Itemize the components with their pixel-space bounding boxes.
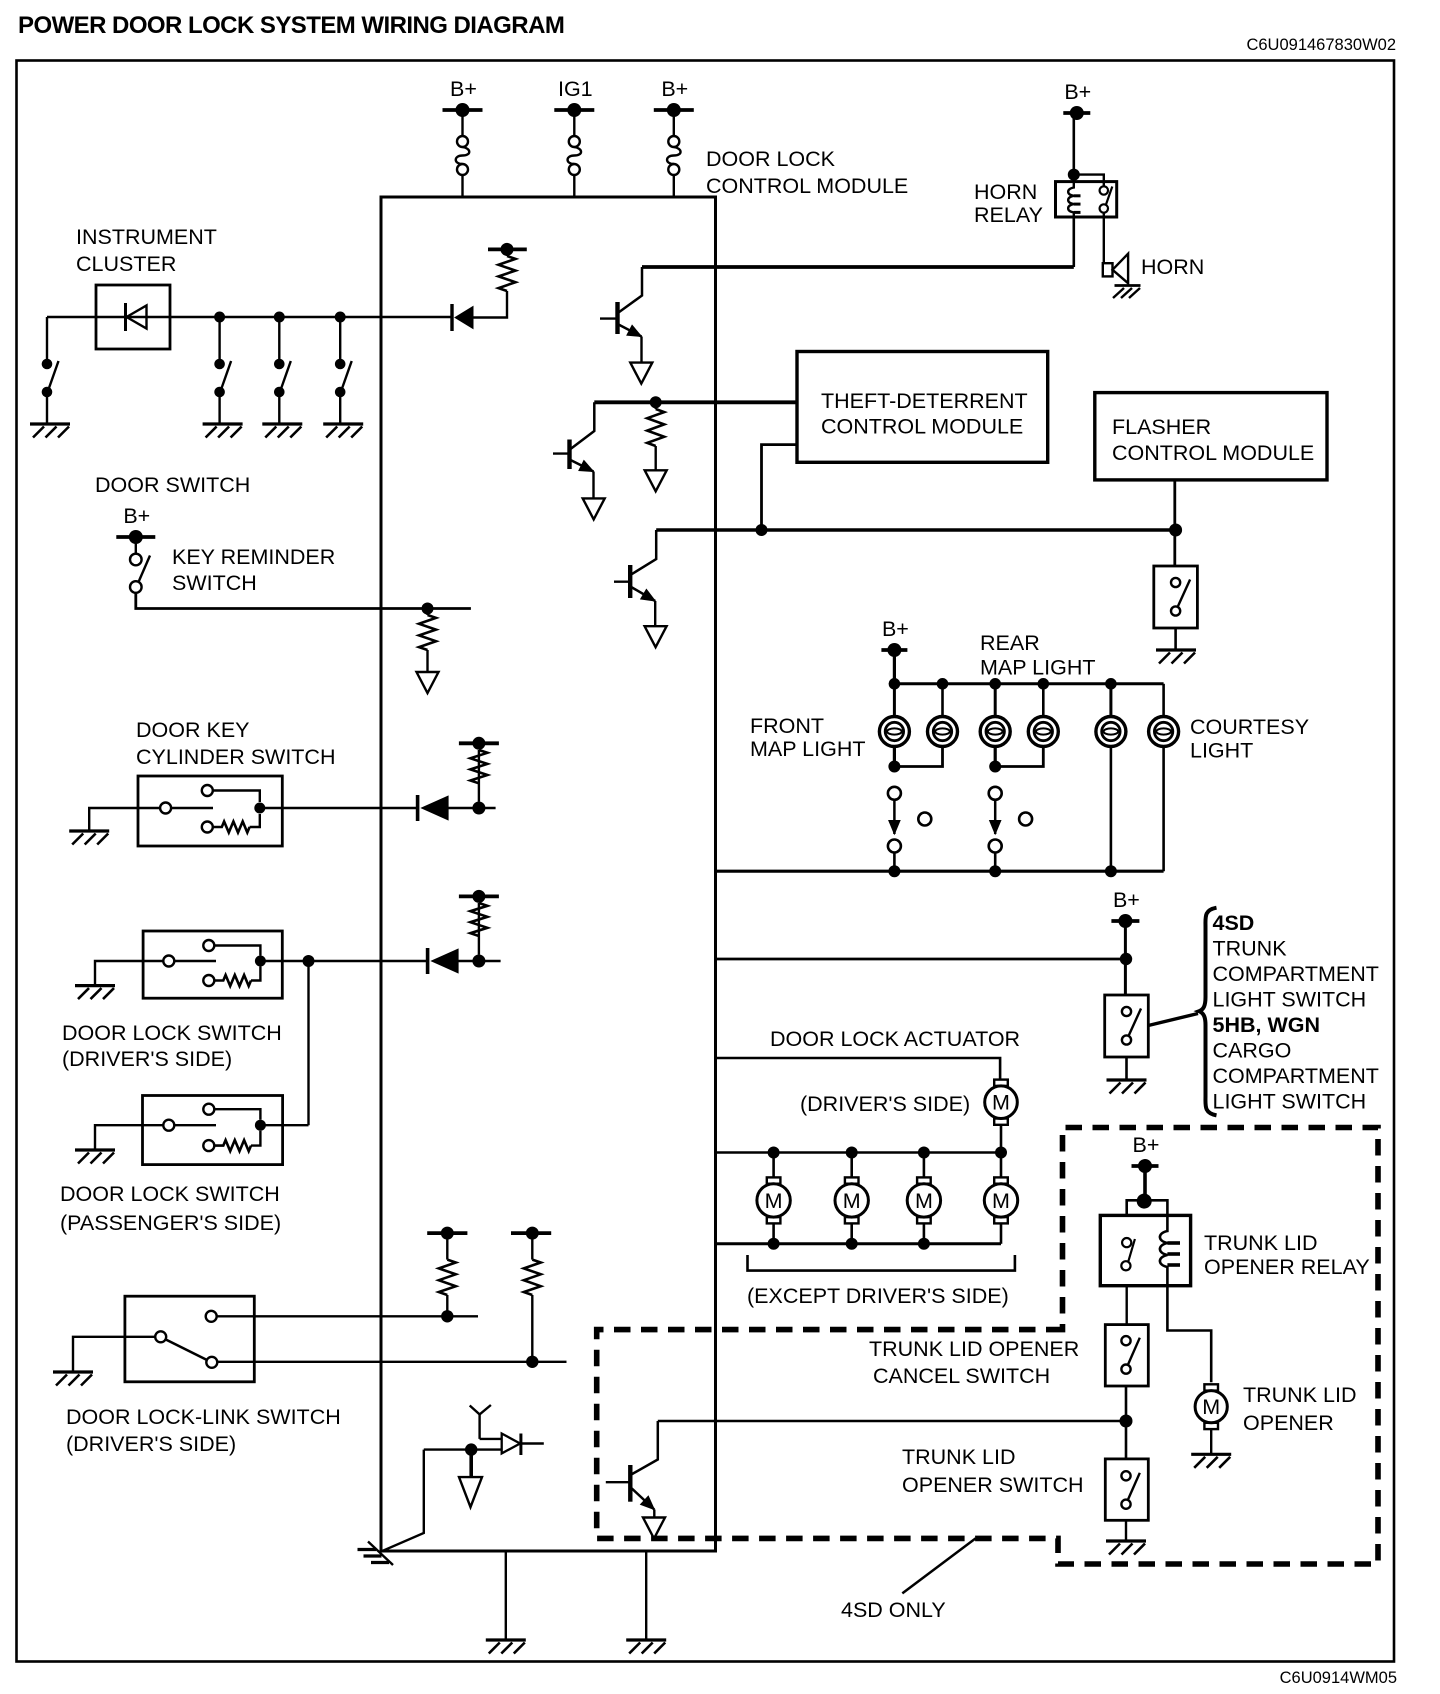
junction [989, 761, 1001, 773]
ground (flasher switch) [1156, 650, 1196, 664]
wire [1124, 921, 1127, 995]
wire: relay coil to trunk lid opener motor [1167, 1286, 1211, 1383]
junction [888, 865, 900, 877]
door lock-link switch box [125, 1296, 254, 1382]
label KEY REMINDER SWITCH [172, 545, 335, 595]
wire: cylinder switch to module [260, 807, 418, 809]
svg-text:4SD: 4SD [1213, 911, 1255, 935]
pull-up supply bar [427, 1227, 467, 1240]
switch contact+resistor (unlock) [203, 967, 260, 987]
label COURTESY LIGHT [1190, 715, 1309, 763]
svg-text:M: M [765, 1189, 783, 1213]
lamp 3 [980, 717, 1010, 747]
pull-up supply bar [459, 890, 499, 903]
wire [479, 960, 501, 962]
wire [994, 853, 997, 872]
ground (passenger lock switch) [75, 1150, 115, 1164]
junction [303, 955, 315, 967]
ground (trunk lid opener) [1191, 1454, 1231, 1468]
svg-text:B+: B+ [1133, 1133, 1160, 1157]
resistor (under junction) [647, 409, 664, 446]
motor M (door lock actuator) [757, 1177, 790, 1223]
ground (triangle) under Q4 [643, 1518, 665, 1539]
door key cylinder switch box [138, 776, 282, 846]
drawing code C6U0914WM05 [1280, 1669, 1397, 1687]
horn relay switch contacts [1100, 186, 1113, 212]
wire [1109, 684, 1112, 717]
diode (driver lock switch input) [428, 948, 459, 974]
svg-text:MAP LIGHT: MAP LIGHT [750, 737, 866, 761]
power feed IG1 at x=574.3 [554, 77, 594, 117]
resistor (pull-up, cluster input) [499, 256, 516, 291]
ground (triangle) under Q1 [630, 363, 652, 384]
wire: actuator bus (lower) [716, 1242, 1002, 1245]
svg-text:OPENER RELAY: OPENER RELAY [1204, 1255, 1370, 1279]
power feed B+ (trunk light switch) [1111, 888, 1139, 928]
wire [772, 1223, 775, 1243]
label TRUNK LID OPENER RELAY [1204, 1231, 1370, 1279]
junction [274, 312, 285, 323]
wire [424, 1448, 502, 1450]
wire [446, 1295, 448, 1316]
wire: key reminder switch to module [136, 593, 471, 609]
wire [1162, 684, 1165, 717]
svg-text:C6U091467830W02: C6U091467830W02 [1246, 36, 1396, 54]
wire [461, 175, 463, 197]
junction [472, 802, 485, 815]
wire: lamp supply bus [894, 682, 1163, 685]
wire: actuator bus (upper) [716, 1151, 1002, 1154]
wire [506, 249, 508, 256]
wire [673, 175, 675, 197]
wire [655, 446, 657, 470]
switch contact (bottom) [206, 1357, 217, 1368]
switch contact+resistor (unlock) [203, 1131, 260, 1151]
svg-text:B+: B+ [1113, 888, 1140, 912]
label INSTRUMENT CLUSTER [76, 225, 217, 276]
wire [426, 609, 428, 616]
label DOOR LOCK SWITCH (PASSENGER'S SIDE) [60, 1182, 281, 1235]
resistor (pull-up, driver lock input) [470, 903, 487, 936]
wire [505, 1551, 507, 1640]
wire [469, 1450, 473, 1477]
wire [573, 110, 575, 136]
wire: module to horn relay coil [642, 265, 1074, 269]
wire: module to theft-deterrent module [594, 400, 797, 404]
junction [918, 1147, 930, 1159]
wire [218, 317, 220, 359]
label DOOR LOCK ACTUATOR [770, 1027, 1020, 1051]
wire [73, 1337, 155, 1372]
lamp 5 [1096, 717, 1126, 747]
label DOOR LOCK CONTROL MODULE [706, 147, 908, 198]
label TRUNK LID OPENER [1243, 1383, 1356, 1435]
wire: lock-link top contact to module [217, 1315, 478, 1317]
diode (to antenna) [502, 1434, 544, 1456]
label (EXCEPT DRIVER'S SIDE) [747, 1284, 1009, 1308]
wire [1125, 1386, 1128, 1459]
svg-text:COURTESY: COURTESY [1190, 715, 1309, 739]
junction [1120, 1415, 1133, 1428]
diode (cylinder switch input) [418, 795, 449, 821]
junction [989, 865, 1001, 877]
ground (horn) [1113, 284, 1141, 299]
junction [472, 955, 485, 968]
svg-text:5HB, WGN: 5HB, WGN [1213, 1013, 1321, 1037]
wire [772, 1153, 775, 1178]
motor M (door lock actuator) [835, 1177, 868, 1223]
wire [850, 1153, 853, 1178]
wire [1174, 628, 1177, 650]
label REAR MAP LIGHT [980, 631, 1096, 680]
resistor (pull-up, lock-link row 1) [439, 1260, 456, 1295]
wire [1173, 480, 1176, 566]
svg-text:CANCEL SWITCH: CANCEL SWITCH [873, 1364, 1050, 1388]
wire [1000, 1153, 1003, 1178]
wire: module to flasher control module [656, 528, 1175, 532]
svg-text:LIGHT: LIGHT [1190, 739, 1253, 763]
label DOOR LOCK-LINK SWITCH (DRIVER'S SIDE) [66, 1405, 341, 1456]
junction [214, 312, 225, 323]
door lock switch (passenger) box [143, 1096, 283, 1165]
power feed B+ (horn relay) [1063, 80, 1091, 120]
junction [1068, 169, 1080, 181]
fuse coil under B+ [456, 136, 470, 175]
svg-text:C6U0914WM05: C6U0914WM05 [1280, 1669, 1397, 1687]
motor M (driver's door lock actuator) [985, 1080, 1018, 1125]
svg-text:(EXCEPT DRIVER'S SIDE): (EXCEPT DRIVER'S SIDE) [747, 1284, 1009, 1308]
power feed B+ (key reminder) [116, 504, 155, 544]
wire [46, 317, 48, 359]
junction [846, 1238, 858, 1250]
label FRONT MAP LIGHT [750, 714, 866, 761]
svg-text:SWITCH: SWITCH [172, 571, 257, 595]
transistor Q4 base stub [606, 1481, 631, 1483]
wire [479, 807, 496, 809]
junction [756, 524, 768, 536]
label 4SD ONLY [841, 1598, 946, 1622]
svg-text:DOOR LOCK-LINK SWITCH: DOOR LOCK-LINK SWITCH [66, 1405, 341, 1429]
switch common contact [163, 956, 216, 967]
svg-text:DOOR SWITCH: DOOR SWITCH [95, 473, 250, 497]
pull-up supply bar [488, 243, 527, 256]
lamp 4 [1028, 717, 1058, 747]
wire [135, 537, 137, 554]
switch common contact [163, 1120, 216, 1131]
pull-up supply bar [511, 1227, 551, 1240]
bracket (except driver's side) [748, 1255, 1015, 1271]
wire [218, 397, 220, 424]
trunk lid opener relay box [1100, 1215, 1190, 1285]
svg-text:(DRIVER'S SIDE): (DRIVER'S SIDE) [800, 1092, 970, 1116]
ground (triangle) [417, 672, 439, 693]
svg-text:B+: B+ [882, 617, 909, 641]
junction [465, 1443, 477, 1455]
wire [478, 903, 480, 955]
title: POWER DOOR LOCK SYSTEM WIRING DIAGRAM [18, 12, 564, 39]
pointer line to brace [1148, 1014, 1198, 1026]
motor M (door lock actuator) [984, 1177, 1017, 1223]
transistor Q2 base stub [553, 452, 570, 454]
svg-text:HORN: HORN [1141, 255, 1204, 279]
wire [1073, 113, 1076, 182]
wire [278, 317, 280, 359]
wire [1042, 684, 1045, 717]
svg-text:COMPARTMENT: COMPARTMENT [1213, 962, 1379, 986]
junction [995, 1147, 1007, 1159]
power feed B+ at x=673.8 [654, 77, 694, 117]
wire [480, 1438, 502, 1440]
wire [655, 402, 657, 409]
flasher door switch box [1154, 566, 1198, 628]
wire [923, 1223, 926, 1243]
wire [850, 1223, 853, 1243]
transistor Q2 [570, 402, 595, 471]
label HORN RELAY [974, 180, 1043, 227]
resistor (key reminder input) [419, 615, 436, 650]
switch common contact [155, 1331, 207, 1360]
wire: module to trunk compartment light switch [716, 958, 1127, 961]
door switch contact (cluster) [214, 359, 231, 398]
wire: relay feed split [1127, 1200, 1168, 1215]
svg-text:RELAY: RELAY [974, 203, 1043, 227]
label 4SD TRUNK COMPARTMENT LIGHT SWITCH / 5HB WGN CARGO COMPARTMENT LIGHT SWITCH [1213, 911, 1379, 1114]
label DOOR SWITCH [95, 473, 250, 497]
brace [1199, 908, 1217, 1116]
svg-text:DOOR LOCK SWITCH: DOOR LOCK SWITCH [62, 1021, 282, 1045]
junction [1137, 1194, 1152, 1209]
svg-text:CONTROL MODULE: CONTROL MODULE [1112, 441, 1314, 465]
svg-text:THEFT-DETERRENT: THEFT-DETERRENT [821, 389, 1028, 413]
label DOOR LOCK SWITCH (DRIVER'S SIDE) [62, 1021, 282, 1071]
svg-text:POWER DOOR LOCK SYSTEM WIRING: POWER DOOR LOCK SYSTEM WIRING DIAGRAM [18, 12, 564, 39]
wire [673, 110, 675, 136]
wire [573, 175, 575, 197]
ground (trunk light switch) [1107, 1080, 1147, 1094]
wire [1162, 746, 1165, 871]
svg-text:DOOR LOCK: DOOR LOCK [706, 147, 836, 171]
label (DRIVER'S SIDE) [800, 1092, 970, 1116]
svg-text:(PASSENGER'S SIDE): (PASSENGER'S SIDE) [60, 1211, 281, 1235]
lamp 6 [1149, 717, 1179, 747]
junction [918, 1238, 930, 1250]
wire [653, 1510, 655, 1519]
wire [381, 1450, 424, 1552]
wire [640, 337, 642, 363]
svg-text:OPENER SWITCH: OPENER SWITCH [902, 1473, 1084, 1497]
crossing hatch at module corner [358, 1542, 394, 1566]
wire [654, 601, 656, 626]
document code C6U091467830W02 [1246, 36, 1396, 54]
svg-text:CONTROL MODULE: CONTROL MODULE [706, 174, 908, 198]
junction [422, 603, 434, 615]
svg-text:DOOR KEY: DOOR KEY [136, 718, 250, 742]
svg-text:DOOR LOCK SWITCH: DOOR LOCK SWITCH [60, 1182, 280, 1206]
rear map light switch [989, 787, 1032, 853]
wire [893, 853, 896, 872]
motor M (door lock actuator) [907, 1177, 940, 1223]
wire [1073, 217, 1076, 267]
door lock switch (driver) box [143, 931, 282, 998]
wire [339, 397, 341, 424]
wire [95, 961, 163, 986]
wire [592, 472, 594, 499]
wire: lock-link bottom contact to module [217, 1361, 566, 1363]
wire [1103, 213, 1105, 263]
svg-text:FRONT: FRONT [750, 714, 824, 738]
junction [255, 956, 266, 967]
lamp 2 [928, 717, 958, 747]
trunk compartment light switch box [1105, 995, 1149, 1057]
wire [531, 1233, 533, 1260]
ground (triangle) under Q3 [645, 626, 667, 647]
relay coil [1160, 1215, 1180, 1285]
fuse coil under B+ [667, 136, 681, 175]
ground [30, 424, 70, 438]
wire [994, 684, 997, 717]
wire [458, 960, 479, 962]
wire [461, 110, 463, 136]
wire [923, 1153, 926, 1178]
switch contact+resistor (unlock) [202, 814, 260, 833]
label THEFT-DETERRENT CONTROL MODULE [821, 389, 1028, 439]
wire [941, 684, 944, 717]
wire: module to driver's actuator [716, 1058, 1001, 1081]
wire [46, 397, 48, 424]
junction [1169, 524, 1182, 537]
key reminder switch contacts [130, 554, 150, 593]
svg-text:TRUNK LID OPENER: TRUNK LID OPENER [869, 1337, 1079, 1361]
motor M (trunk lid opener) [1195, 1384, 1227, 1429]
wire [95, 1125, 163, 1150]
horn speaker [1103, 254, 1128, 284]
ground (lock-link switch) [53, 1372, 93, 1386]
svg-text:B+: B+ [661, 77, 688, 101]
wire [994, 746, 997, 767]
junction [526, 1356, 538, 1368]
svg-text:M: M [1202, 1395, 1220, 1419]
wire [478, 750, 480, 802]
junction [889, 678, 901, 690]
door lock control module box [381, 197, 716, 1551]
wire [531, 1295, 533, 1362]
svg-text:B+: B+ [450, 77, 477, 101]
resistor (pull-up, cylinder input) [470, 750, 487, 783]
transistor Q1 [618, 267, 643, 337]
svg-text:CARGO: CARGO [1213, 1039, 1292, 1063]
svg-text:COMPARTMENT: COMPARTMENT [1213, 1064, 1379, 1088]
wire: theft-deterrent module to flasher node [762, 445, 798, 530]
junction [650, 396, 662, 408]
svg-text:TRUNK LID: TRUNK LID [1243, 1383, 1356, 1407]
label TRUNK LID OPENER SWITCH [902, 1445, 1084, 1497]
svg-text:CYLINDER SWITCH: CYLINDER SWITCH [136, 745, 335, 769]
svg-text:B+: B+ [123, 504, 150, 528]
wire [1125, 1057, 1128, 1080]
svg-text:IG1: IG1 [558, 77, 593, 101]
switch contact (lock) [202, 785, 260, 802]
ground (triangle) [645, 470, 667, 491]
svg-text:REAR: REAR [980, 631, 1040, 655]
door switch contact (cluster) [274, 359, 291, 398]
ground (triangle) under Q2 [583, 498, 605, 519]
wire [1000, 1124, 1003, 1152]
wire [339, 317, 341, 359]
junction [768, 1147, 780, 1159]
junction [937, 678, 949, 690]
wire: instrument cluster row [47, 316, 452, 319]
ground (module right) [626, 1640, 666, 1654]
svg-text:M: M [843, 1189, 861, 1213]
junction [989, 678, 1001, 690]
label TRUNK LID OPENER CANCEL SWITCH [869, 1337, 1079, 1388]
relay switch contacts [1121, 1238, 1135, 1270]
svg-text:M: M [915, 1189, 933, 1213]
wire [894, 746, 942, 767]
theft-deterrent control module box [797, 352, 1048, 463]
svg-text:FLASHER: FLASHER [1112, 415, 1211, 439]
transistor Q3 base stub [614, 581, 630, 583]
front map light switch [888, 787, 931, 853]
power feed B+ (trunk lid opener) [1132, 1133, 1160, 1173]
wire [893, 684, 896, 717]
svg-text:OPENER: OPENER [1243, 1411, 1334, 1435]
svg-text:4SD ONLY: 4SD ONLY [841, 1598, 946, 1622]
wire [1000, 1223, 1003, 1243]
svg-text:LIGHT SWITCH: LIGHT SWITCH [1213, 1090, 1367, 1114]
trunk lid opener switch box [1105, 1459, 1148, 1520]
svg-text:TRUNK LID: TRUNK LID [902, 1445, 1015, 1469]
flasher control module box [1095, 393, 1327, 480]
ground [323, 424, 363, 438]
switch contact (top) [206, 1311, 217, 1322]
diode (cluster input) [452, 304, 473, 331]
door switch contact (cluster, col 1) [42, 359, 59, 398]
label HORN [1141, 255, 1204, 279]
junction [255, 1120, 266, 1131]
svg-text:CLUSTER: CLUSTER [76, 252, 176, 276]
trunk lid opener cancel switch box [1105, 1325, 1148, 1386]
svg-text:HORN: HORN [974, 180, 1037, 204]
ground (module left) [486, 1640, 526, 1654]
junction [846, 1147, 858, 1159]
transistor Q1 base stub [600, 317, 618, 319]
ground [203, 424, 243, 438]
power feed B+ (map lights) [881, 617, 908, 657]
wire [1110, 746, 1113, 871]
ground (cylinder switch) [69, 831, 109, 845]
wire [260, 1124, 308, 1126]
junction [1105, 865, 1117, 877]
junction [441, 1310, 453, 1322]
wire [1125, 1520, 1127, 1541]
svg-text:TRUNK LID: TRUNK LID [1204, 1231, 1317, 1255]
wire [1210, 1429, 1212, 1454]
instrument cluster box [96, 285, 170, 349]
junction [888, 761, 900, 773]
wire [473, 291, 507, 318]
junction [335, 312, 346, 323]
door switch contact (cluster) [335, 359, 352, 398]
antenna Y symbol [470, 1405, 491, 1439]
resistor (pull-up, lock-link row 2) [524, 1260, 541, 1295]
power feed B+ at x=462.5 [443, 77, 483, 117]
svg-text:(DRIVER'S SIDE): (DRIVER'S SIDE) [62, 1047, 232, 1071]
svg-text:MAP LIGHT: MAP LIGHT [980, 656, 1096, 680]
wire [446, 1233, 448, 1260]
horn relay box [1056, 182, 1117, 217]
switch common contact [160, 803, 213, 814]
